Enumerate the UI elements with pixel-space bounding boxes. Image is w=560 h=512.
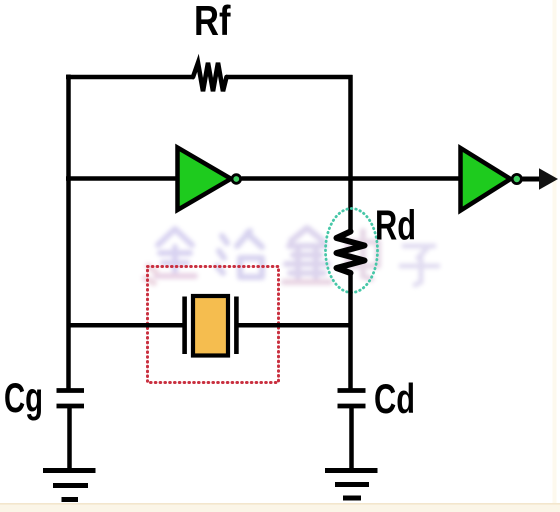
wire: U1 input xyxy=(66,176,178,181)
svg-text:Cd: Cd xyxy=(374,375,415,422)
wire: Cd to ground xyxy=(349,408,354,469)
highlight: teal dotted ellipse around Rd xyxy=(326,209,378,293)
bottom edge scan band xyxy=(0,504,560,512)
right edge scan band xyxy=(553,0,557,512)
resistor Rf xyxy=(193,63,227,91)
capacitor Cg xyxy=(57,391,85,407)
inverter U2 xyxy=(461,148,522,211)
highlight: red dotted box around crystal xyxy=(148,267,279,383)
wire: Cg to ground xyxy=(67,408,72,469)
svg-text:Rd: Rd xyxy=(375,202,416,249)
ground (right) xyxy=(325,471,378,499)
wire: U2 output lead xyxy=(522,177,541,182)
wire: crystal branch right lead xyxy=(239,323,353,328)
output arrowhead xyxy=(539,168,558,189)
wire: right vertical rail lower section xyxy=(348,272,353,390)
wire: right vertical rail upper section xyxy=(348,75,353,234)
svg-text:Cg: Cg xyxy=(4,374,43,421)
wire: U1 output to U2 input xyxy=(242,176,462,181)
ground (left) xyxy=(43,471,96,500)
resistor Rd xyxy=(337,232,365,274)
wire: left vertical rail xyxy=(66,75,71,391)
wire: top feedback rail right segment xyxy=(226,75,353,80)
inverter U1 xyxy=(178,148,241,211)
wire: top feedback rail left segment xyxy=(66,75,194,80)
crystal Y1 xyxy=(185,296,237,356)
watermark text (blurred CJK logo) xyxy=(145,228,438,285)
svg-text:Rf: Rf xyxy=(194,0,231,44)
capacitor Cd xyxy=(338,391,366,407)
wire: crystal branch left lead xyxy=(68,323,183,328)
